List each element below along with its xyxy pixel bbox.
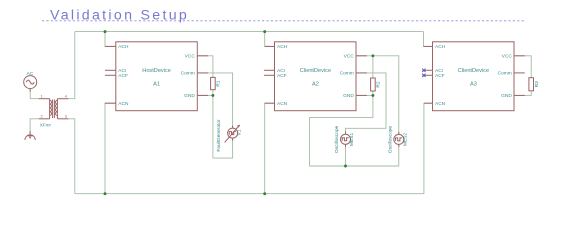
- junction bottom bus at A1 ACN: [104, 192, 107, 195]
- junction R1 bottom GND node: [211, 94, 214, 97]
- svg-text:Oscilloscope: Oscilloscope: [387, 126, 393, 154]
- svg-text:ACF: ACF: [277, 73, 287, 79]
- svg-text:VCC: VCC: [185, 54, 196, 60]
- junction A2 VCC node: [371, 54, 374, 57]
- fault generator V1: [225, 125, 240, 142]
- pin 3: [57, 118, 68, 120]
- pin GND: [197, 94, 208, 96]
- wire A3 GND to R3 bottom: [514, 91, 531, 96]
- pin Comm: [356, 72, 367, 74]
- pin ACH: [424, 45, 433, 47]
- pin ACF: [423, 74, 433, 76]
- secondary winding: [56, 99, 58, 119]
- wire A2 ACN to bottom bus: [265, 103, 275, 194]
- pin GND: [514, 94, 525, 96]
- wire A1 Comm to fault generator top: [197, 73, 232, 128]
- pin ACH: [105, 45, 116, 47]
- pin 4: [57, 98, 68, 100]
- svg-text:Comm: Comm: [498, 71, 512, 77]
- svg-text:ACH: ACH: [118, 44, 129, 50]
- wire oscilloscope MES1 bottom to meter bus: [345, 144, 347, 166]
- svg-text:HostDevice: HostDevice: [142, 68, 171, 74]
- pin 2: [39, 118, 50, 120]
- wire R1 bottom loop to fault generator bottom: [213, 90, 233, 158]
- sheet title "Validation Setup": [42, 8, 525, 24]
- wire transformer pin3 to bottom bus: [68, 119, 74, 194]
- junction top bus at A2 ACH: [263, 30, 266, 33]
- wire transformer pin4 to top bus: [68, 32, 74, 99]
- svg-text:A2: A2: [312, 81, 319, 87]
- pin Comm: [197, 72, 208, 74]
- wire A2 GND loop to meters bottom: [310, 95, 399, 166]
- svg-text:4: 4: [65, 94, 68, 99]
- svg-text:ACF: ACF: [435, 73, 445, 79]
- AC source G1: [24, 76, 37, 92]
- svg-text:MES1: MES1: [349, 133, 355, 146]
- core: [52, 100, 54, 119]
- svg-text:XFmr: XFmr: [40, 122, 52, 127]
- svg-text:Validation Setup: Validation Setup: [50, 8, 189, 24]
- svg-text:AC: AC: [27, 71, 34, 77]
- wire A2 ACH from top bus: [265, 32, 275, 47]
- A3 pin names: [435, 44, 512, 107]
- wire A2 Comm to oscilloscope MES1 top: [346, 73, 387, 134]
- pin ACI: [264, 69, 275, 71]
- svg-text:R1: R1: [216, 80, 222, 86]
- svg-text:ACH: ACH: [435, 44, 446, 50]
- transformer pin numbers: [41, 94, 68, 119]
- junction meter bus at MES1: [344, 165, 347, 168]
- svg-text:VCC: VCC: [344, 54, 355, 60]
- pin GND: [356, 94, 367, 96]
- pin ACF: [264, 74, 275, 76]
- wire A1 ACN to bottom bus: [105, 103, 116, 194]
- svg-text:FaultGenerator: FaultGenerator: [216, 119, 222, 152]
- svg-text:1: 1: [41, 94, 44, 99]
- svg-text:A3: A3: [470, 81, 477, 87]
- host device A1: [105, 42, 208, 111]
- junction top bus at A1 ACH: [104, 30, 107, 33]
- svg-text:GND: GND: [343, 93, 354, 99]
- svg-text:Oscilloscope: Oscilloscope: [334, 125, 340, 153]
- wire A3 ACH from top bus: [424, 32, 433, 47]
- svg-text:Comm: Comm: [181, 71, 195, 77]
- pin ACI: [105, 69, 116, 71]
- svg-text:A1: A1: [153, 81, 160, 87]
- wire bottom bus: [75, 193, 424, 195]
- resistor R1: [211, 77, 216, 89]
- svg-text:ACN: ACN: [277, 101, 288, 107]
- wire AC source to transformer pin1: [30, 89, 38, 99]
- svg-text:GND: GND: [184, 93, 195, 99]
- wire A1 ACH from top bus: [105, 32, 116, 47]
- svg-text:Comm: Comm: [340, 71, 354, 77]
- primary winding: [49, 99, 51, 119]
- A3 no-connect ACF: [422, 74, 425, 77]
- svg-text:VCC: VCC: [502, 54, 513, 60]
- A2 pin names: [277, 44, 354, 107]
- svg-text:ACF: ACF: [118, 73, 128, 79]
- pin ACN: [105, 102, 116, 104]
- wire VCC junction down to R2 top: [372, 56, 374, 78]
- svg-text:3: 3: [65, 114, 68, 119]
- wire transformer pin2 to earth: [30, 119, 38, 134]
- wire A1 GND to R1 bottom junction: [197, 94, 213, 96]
- pin 1: [39, 98, 50, 100]
- pin ACN: [265, 102, 275, 104]
- wire A2 VCC to oscilloscope MES2 top: [356, 56, 399, 135]
- A1 pin names: [118, 44, 195, 107]
- wire A1 VCC to R1 top: [197, 56, 213, 78]
- svg-text:ClientDevice: ClientDevice: [458, 68, 489, 74]
- svg-text:V1: V1: [237, 129, 243, 135]
- transformer XFmr: [39, 99, 69, 119]
- svg-text:R2: R2: [376, 81, 382, 87]
- svg-text:MES2: MES2: [402, 133, 408, 146]
- pin Comm: [514, 72, 525, 74]
- wire A3 VCC to R3 top: [514, 56, 531, 78]
- client device A3: [423, 42, 525, 111]
- svg-text:ACN: ACN: [118, 101, 129, 107]
- pin ACN: [424, 102, 433, 104]
- wire top bus: [75, 31, 424, 33]
- svg-text:ClientDevice: ClientDevice: [300, 68, 331, 74]
- svg-text:R3: R3: [534, 81, 540, 87]
- svg-text:GND: GND: [501, 93, 512, 99]
- junction bottom bus at A2 ACN: [263, 192, 266, 195]
- pin ACF: [105, 74, 116, 76]
- client device A2: [264, 42, 367, 111]
- pin VCC: [197, 55, 208, 57]
- junction A2 GND node: [371, 94, 374, 97]
- wire A3 ACN to bottom bus: [424, 103, 433, 194]
- pin VCC: [514, 55, 525, 57]
- oscilloscope MES1: [341, 132, 351, 147]
- earth ground symbol: [25, 131, 35, 140]
- resistor R3: [529, 78, 534, 91]
- A3 no-connect ACI: [422, 69, 425, 72]
- svg-text:2: 2: [41, 114, 44, 119]
- svg-text:ACH: ACH: [277, 44, 288, 50]
- pin ACH: [265, 45, 275, 47]
- wire R2 bottom to GND junction: [372, 91, 374, 95]
- pin ACI: [423, 69, 433, 71]
- oscilloscope MES2: [394, 132, 404, 147]
- svg-text:ACN: ACN: [435, 101, 446, 107]
- pin VCC: [356, 55, 367, 57]
- resistor R2: [371, 78, 376, 91]
